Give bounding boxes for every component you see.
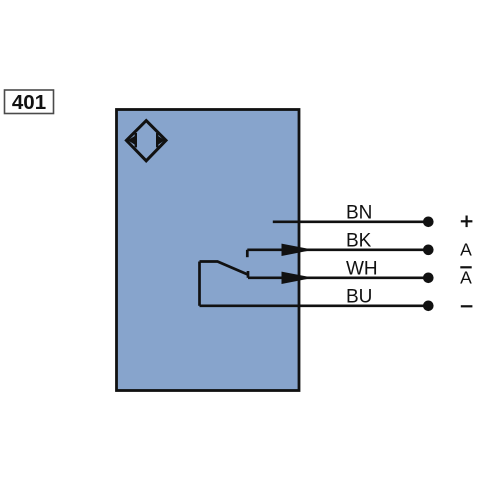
arrow on WH output [282,272,314,284]
terminal BK [423,245,434,256]
label A-bar [460,267,472,287]
svg-text:WH: WH [346,258,378,279]
label minus [461,305,473,307]
label + [461,216,473,228]
svg-text:BN: BN [346,202,372,223]
svg-text:BK: BK [346,230,372,251]
svg-text:A: A [460,268,472,288]
BK fixed contact tick [246,250,249,257]
arrow on BK output [282,244,314,256]
wire BU [200,304,429,307]
sensor body (blue rectangle) [117,110,300,391]
svg-text:401: 401 [12,91,46,114]
wire WH [248,276,428,279]
terminal BU [423,301,434,312]
terminal BN [423,217,434,228]
wire BK [247,248,428,251]
changeover switch lever [200,262,249,275]
svg-text:BU: BU [346,286,372,307]
wire BN [273,220,429,223]
proximity switch symbol (diamond) [126,121,166,161]
figure number box 401 [5,90,54,114]
switch common wire down to BU [198,262,201,306]
WH fixed contact tick [247,271,250,278]
svg-text:A: A [460,240,472,260]
terminal WH [423,273,434,284]
